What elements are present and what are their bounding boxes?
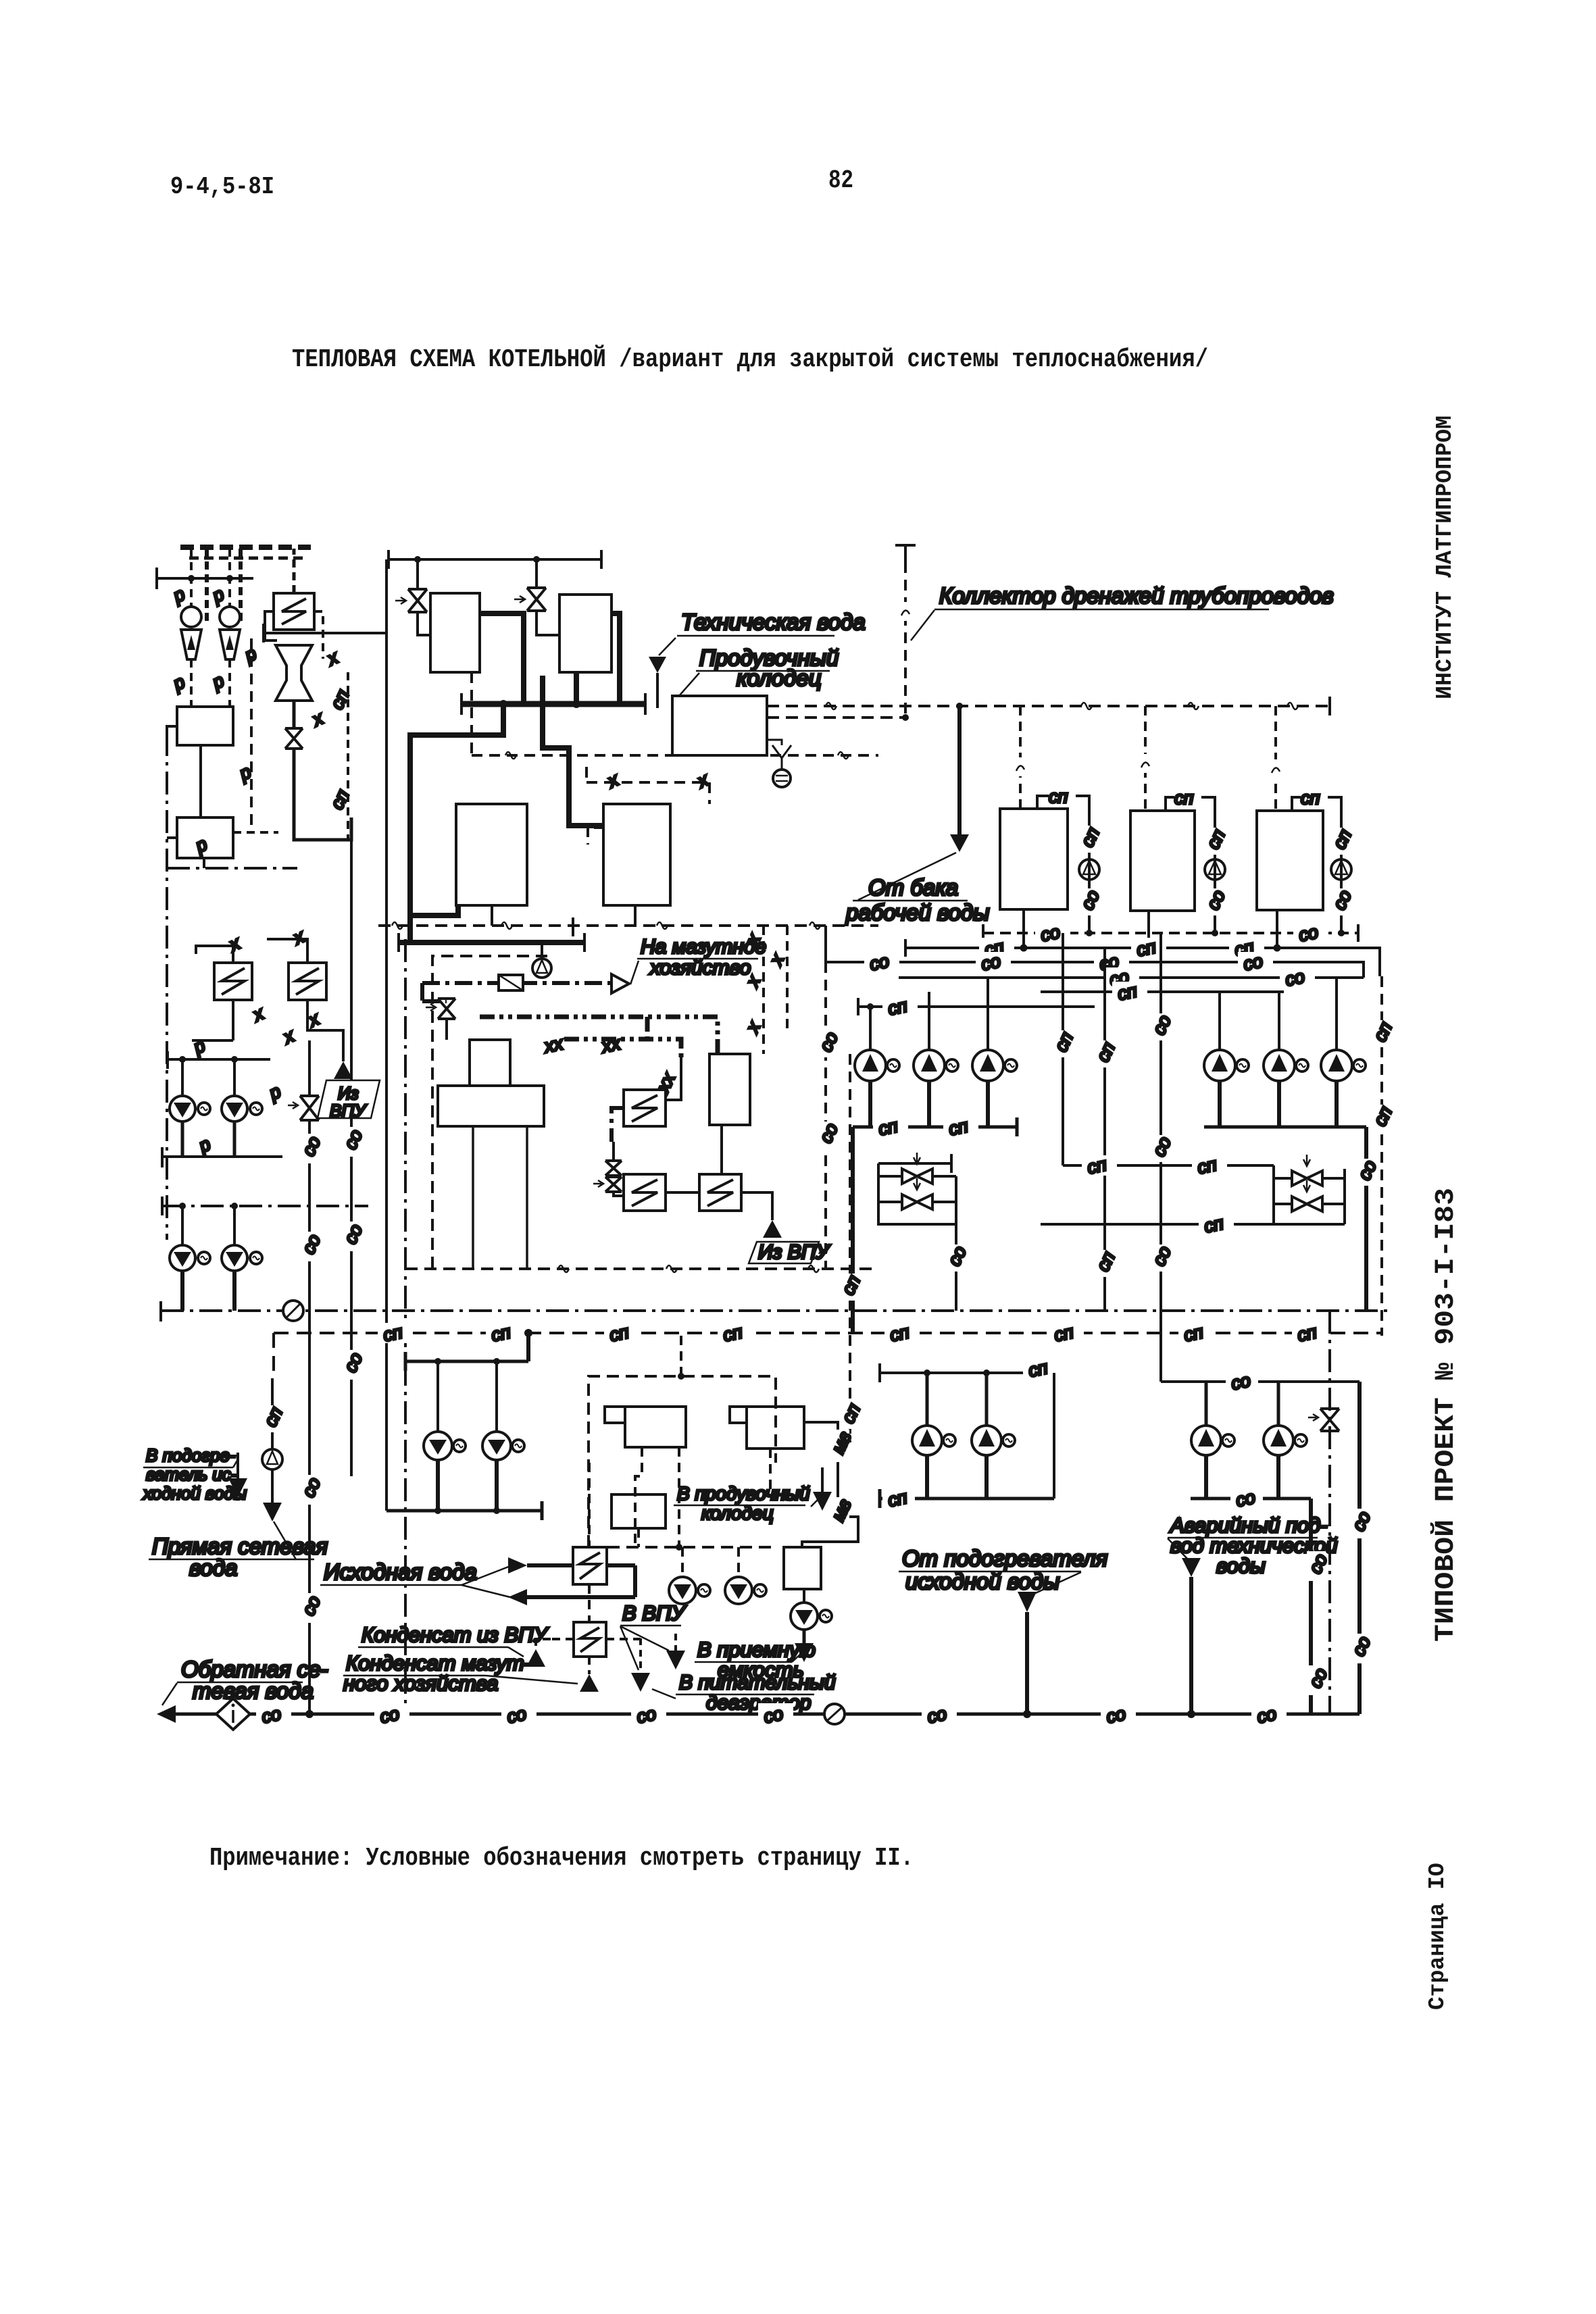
wire: enclosure dashed box bbox=[589, 1376, 776, 1547]
wire: HXL2 bottom elbow bbox=[192, 1039, 233, 1042]
arrow: return network water bbox=[157, 1705, 176, 1723]
wire: dashed riser through HXI x872 bbox=[588, 1463, 591, 1622]
wire: dashed tilde line y1118 bbox=[472, 672, 878, 755]
heat exchanger HXD1 bbox=[624, 1090, 666, 1126]
wire: discharge bus y2218 bbox=[880, 1489, 1054, 1508]
wire: co elbow feed bbox=[1161, 1380, 1311, 1383]
svg-text:хозяйство: хозяйство bbox=[649, 957, 751, 979]
wire: dashed sp riser x1258 bbox=[849, 1054, 851, 1442]
economizer EC2 bbox=[603, 804, 670, 905]
arrow: from heater down bbox=[1018, 1592, 1037, 1612]
wire: HXI2 left elbow bbox=[536, 1639, 574, 1649]
svg-text:От подогревателя: От подогревателя bbox=[902, 1546, 1107, 1571]
wire: top heavy dashed bus bbox=[180, 545, 311, 550]
wire: valve VB2 stem bbox=[535, 559, 538, 588]
wire: bus sp y1468 short bbox=[1041, 990, 1284, 993]
valve VB2 boiler2 feed bbox=[527, 588, 546, 611]
ejector EJ2 bbox=[220, 607, 240, 627]
wire: deaerator legs bbox=[473, 1126, 527, 1269]
deaerator column DC bbox=[470, 1040, 510, 1086]
wire: HXD1 left elbow bbox=[612, 1108, 624, 1142]
wire: vpu riser x458 bbox=[308, 1040, 311, 1714]
svg-text:В ВПУ: В ВПУ bbox=[622, 1601, 687, 1625]
pump RP2 bbox=[482, 1432, 511, 1460]
arrow: raw water in bbox=[508, 1557, 527, 1574]
leader fan bbox=[462, 1566, 510, 1597]
arrow: condensate mazut bbox=[580, 1674, 599, 1692]
wire: drains bus y1045 dashed bbox=[767, 705, 1330, 707]
svg-text:сп: сп bbox=[1049, 786, 1068, 807]
svg-text:Техническая вода: Техническая вода bbox=[681, 609, 866, 634]
break co on riser y1690 bbox=[340, 1126, 366, 1157]
wire: co riser x1718 bbox=[1159, 933, 1162, 1382]
valve BPV1 bbox=[902, 1169, 932, 1184]
wire: sp bus left elbow down bbox=[272, 1333, 275, 1378]
valve BPV2 bbox=[902, 1194, 932, 1209]
pump PL2 bbox=[222, 1096, 247, 1122]
pump PL3 bbox=[170, 1245, 195, 1271]
svg-text:исходной воды: исходной воды bbox=[905, 1569, 1059, 1594]
wire: PB2 bottom to dashdot bbox=[203, 858, 205, 868]
wire: VB2 to boiler2 bbox=[537, 611, 559, 635]
wire: heavy drop to ejector2 bbox=[239, 549, 243, 622]
co labels on bottom bus bbox=[256, 1703, 291, 1727]
arrow: Из ВПУ lower bbox=[763, 1220, 782, 1238]
box PB2 sample cooler bbox=[177, 818, 233, 858]
wire: feedwater line y937 bbox=[264, 624, 386, 643]
leader obratnaya bbox=[162, 1683, 177, 1705]
wire: bypass frame 1 bbox=[878, 1154, 956, 1224]
arrow: в приемную емкость bbox=[795, 1643, 814, 1662]
junction dots bottom bus bbox=[305, 1710, 314, 1718]
wire: EJ1 drop to box PB1 bbox=[190, 659, 193, 707]
wire: HXT top riser bbox=[293, 549, 296, 593]
wire: well right stub to funnel bbox=[767, 740, 782, 745]
svg-text:со: со bbox=[505, 1703, 528, 1727]
wire: FT2 drop bbox=[769, 1449, 772, 1494]
wire: dash-dot bus y1785 bbox=[162, 1205, 368, 1207]
wire: mazut dash-dot line y1455 bbox=[422, 981, 612, 985]
heat exchanger HXD2 bbox=[624, 1174, 666, 1211]
wire: TK3 pump column bbox=[1340, 811, 1343, 933]
wire: co riser x2012 bbox=[1357, 1382, 1362, 1714]
wire: sp drop x403 bbox=[271, 1378, 274, 1449]
wire: sp dashed riser x2045 bbox=[1380, 976, 1383, 1336]
pump MP mazut pump bbox=[541, 942, 543, 959]
wire: feeds to pump row group2 bbox=[1220, 978, 1337, 1050]
wire: feeds to pumps RP bbox=[438, 1361, 497, 1432]
wire: sp riser x1635 bbox=[1103, 948, 1106, 1311]
pump CP2 bbox=[972, 1426, 1001, 1455]
wire: p-header r1 bbox=[168, 1051, 270, 1069]
wire: group2 discharges bbox=[1220, 1081, 1337, 1127]
filter on mazut line bbox=[499, 975, 523, 990]
wire: HXI2 right dashed bbox=[606, 1638, 641, 1640]
wire: dashed sp riser top bbox=[347, 672, 349, 841]
wire: valve stem to HXD2 bbox=[614, 1142, 624, 1196]
svg-text:В подогре-: В подогре- bbox=[146, 1445, 236, 1465]
wire: bus co solid y1424 bbox=[826, 926, 1364, 978]
wire: TK2 bottom drop bbox=[1147, 911, 1150, 948]
svg-text:со: со bbox=[1234, 1487, 1257, 1511]
svg-text:ходной воды: ходной воды bbox=[142, 1483, 247, 1503]
wire: group1 header drop thick bbox=[851, 1127, 855, 1333]
wire: EJ2 drop to box PB1 bbox=[228, 659, 231, 707]
svg-text:со: со bbox=[1039, 922, 1062, 945]
svg-text:Примечание: Условные обозначен: Примечание: Условные обозначения смотрет… bbox=[209, 1844, 914, 1873]
svg-text:со: со bbox=[259, 1703, 282, 1727]
wire: heavy drop to ejector1 bbox=[205, 549, 209, 622]
wire: discharge bus y2236 to riser bbox=[386, 1501, 542, 1520]
svg-text:со: со bbox=[1104, 1703, 1127, 1727]
wire: FT3 drop bbox=[637, 1528, 640, 1547]
wire: x-marked dashed vertical 2 bbox=[786, 926, 789, 1034]
wire: MV line bbox=[802, 1422, 858, 1547]
break co marks on vpu riser bbox=[298, 1133, 324, 1163]
heat exchanger HXI2 bbox=[574, 1622, 606, 1657]
wire: PB1 to PB2 link bbox=[199, 745, 202, 818]
heat exchanger HXL2 bbox=[214, 963, 252, 1000]
ejector EJ1 bbox=[181, 607, 201, 627]
wire: dash-dot border x600 bbox=[404, 939, 407, 1719]
wire: HXL2 bottom drop bbox=[232, 1000, 234, 1040]
wire: boiler2 steam outlet thick bbox=[612, 613, 620, 704]
wire: TK3 top bracket sp bbox=[1292, 797, 1341, 811]
wire: top second dashed bus bbox=[189, 557, 303, 560]
wire: suction header y2032 bbox=[880, 1363, 1017, 1382]
wire: TK1 pump column bbox=[1088, 809, 1091, 933]
wire: boiler1 steam outlet thick bbox=[480, 613, 524, 704]
box FT1 bbox=[625, 1407, 686, 1447]
heat exchanger HXL3 bbox=[289, 963, 326, 1000]
box FT3 bbox=[612, 1494, 666, 1528]
svg-text:ИНСТИТУТ ЛАТГИПРОПРОМ: ИНСТИТУТ ЛАТГИПРОПРОМ bbox=[1432, 416, 1457, 699]
wire: dashed line y1158 with x ticks bbox=[587, 767, 709, 804]
svg-text:вода: вода bbox=[189, 1555, 237, 1580]
wire: dashed bus y1878 bbox=[405, 1267, 878, 1270]
svg-text:От бака: От бака bbox=[868, 875, 958, 900]
wire: bottom co bus y2537 bbox=[176, 1713, 1360, 1716]
wire: dashed feed bus y1370 bbox=[378, 924, 878, 927]
box: blowdown well BW bbox=[672, 696, 767, 755]
pump BP2 bbox=[725, 1577, 752, 1604]
wire: TK2 pump column bbox=[1214, 811, 1216, 933]
wire: working water drop thick bbox=[957, 706, 962, 834]
wire: PL1 discharge bbox=[181, 1122, 184, 1157]
wire: group2 discharge bus y1668 bbox=[1204, 1126, 1366, 1129]
wire: p dashed riser x370 bbox=[250, 638, 253, 828]
wire: PL4 discharge thick bbox=[232, 1271, 236, 1311]
break co on riser y1830 bbox=[340, 1221, 366, 1251]
wire: thick bus y1395 bbox=[399, 940, 584, 945]
wire: HP drop bbox=[271, 1469, 274, 1503]
wire: pumpA feeds bbox=[927, 1373, 987, 1426]
arrow: tech water into well bbox=[649, 657, 666, 673]
wire: RP discharges bbox=[438, 1460, 497, 1511]
svg-text:Прямая сетевая: Прямая сетевая bbox=[152, 1534, 328, 1559]
wire: enclosure feed from sp bus bbox=[680, 1336, 682, 1376]
svg-text:колодец: колодец bbox=[737, 665, 822, 690]
valve VD2 bbox=[605, 1161, 622, 1176]
wire: drop to pump PL2 bbox=[233, 1059, 236, 1096]
instrument: circle-slash on bus bbox=[283, 1301, 303, 1321]
junction dots on p-header bbox=[188, 575, 195, 582]
wire: TK1 bottom drop bbox=[1022, 909, 1025, 948]
valve BPV3 bbox=[1292, 1171, 1322, 1186]
wire: tank bus co dashed y1381 bbox=[983, 932, 1358, 934]
tank TK2 bbox=[1130, 811, 1195, 911]
label МВ lower bbox=[828, 1496, 855, 1530]
svg-text:со: со bbox=[1255, 1703, 1278, 1727]
wire: BP3 discharge arrow bbox=[803, 1630, 806, 1643]
pump TP3 transfer bbox=[1331, 859, 1351, 880]
wire: EC1 bottom drop bbox=[491, 905, 493, 926]
leader + arrow to blowdown well bbox=[811, 1494, 823, 1507]
wire: pumpB discharges bbox=[1206, 1455, 1278, 1499]
label МВ upper bbox=[828, 1428, 855, 1462]
wire: group2 drop x2022 bbox=[1364, 1127, 1368, 1311]
valve VL1 on elevator drop bbox=[285, 728, 303, 749]
pump NP6 bbox=[1321, 1050, 1352, 1081]
svg-text:со: со bbox=[762, 1703, 784, 1727]
wire: steam header thick bbox=[462, 701, 645, 707]
pump TP2 transfer bbox=[1205, 859, 1225, 880]
tank TK3 bbox=[1257, 811, 1323, 910]
wire: PL2 discharge bbox=[233, 1122, 236, 1157]
svg-text:Коллектор дренажей трубопровод: Коллектор дренажей трубопроводов bbox=[939, 583, 1334, 608]
wire: valve VB1 stem bbox=[416, 559, 419, 589]
wire: discharge bus B y2218 bbox=[1191, 1497, 1311, 1501]
wire: left dash-dot border bbox=[166, 733, 168, 1240]
svg-text:воды: воды bbox=[1216, 1554, 1266, 1578]
pump CP3 bbox=[1191, 1426, 1221, 1455]
wire: HXD1 right top elbow bbox=[666, 1054, 681, 1100]
box PB1 sample cooler bbox=[177, 707, 233, 745]
pump NP3 bbox=[972, 1050, 1003, 1081]
deaerator tank DT bbox=[438, 1086, 544, 1126]
wire: bus sp y1490 short bbox=[858, 998, 1095, 1015]
pump PL4 bbox=[222, 1245, 247, 1271]
leader blowdown well bbox=[679, 673, 699, 696]
wire: co riser x1940 bbox=[1309, 1499, 1313, 1714]
valve VB1 boiler1 feed bbox=[408, 589, 427, 612]
wire: pumpA discharges bbox=[927, 1455, 987, 1499]
break tilde on collector stem bbox=[899, 602, 912, 621]
wire: PL3 discharge thick bbox=[180, 1271, 184, 1311]
svg-text:Конденсат из ВПУ: Конденсат из ВПУ bbox=[361, 1623, 549, 1646]
pump NP4 bbox=[1204, 1050, 1235, 1081]
tall box TB right of deaerator bbox=[709, 1054, 750, 1125]
wire: elevator drop lower thick bbox=[294, 749, 351, 840]
wire: deaerator dashed enclosure bbox=[432, 956, 547, 1269]
wire: co top link x1940-x2012 bbox=[1311, 1380, 1360, 1383]
svg-text:Страница IO: Страница IO bbox=[1425, 1863, 1450, 2010]
wire: p-footer r1 bbox=[162, 1147, 282, 1167]
wire: heater riser to bottom bus bbox=[1025, 1612, 1029, 1714]
svg-text:со: со bbox=[1241, 951, 1264, 974]
wire: dashed co riser x1225 bbox=[824, 962, 827, 1269]
wire: HXL2 top bracket bbox=[196, 946, 233, 963]
arrow: raw water out bbox=[508, 1589, 527, 1605]
svg-text:82: 82 bbox=[828, 166, 853, 195]
wire: drop to tank TK1 bbox=[1019, 706, 1022, 809]
svg-text:ватель ис-: ватель ис- bbox=[146, 1464, 237, 1484]
svg-text:Исходная вода: Исходная вода bbox=[324, 1559, 477, 1584]
pump HP heater circulation bbox=[262, 1449, 282, 1469]
pump TP1 transfer bbox=[1079, 859, 1099, 880]
boiler B1 bbox=[430, 593, 480, 672]
svg-text:ТИПОВОЙ ПРОЕКТ № 903-I-I83: ТИПОВОЙ ПРОЕКТ № 903-I-I83 bbox=[1430, 1188, 1462, 1642]
wire: well second dashed y1062 bbox=[767, 716, 905, 719]
flow meter diamond bbox=[216, 1699, 250, 1730]
arrow: to mazut facility bbox=[612, 974, 629, 993]
wire: drop to tank TK3 bbox=[1274, 706, 1277, 811]
wire: long left riser x572 bbox=[385, 559, 388, 1511]
heat exchanger HXT top-left bbox=[274, 593, 314, 630]
heat exchanger HXD3 bbox=[699, 1174, 741, 1211]
wire: sp dashed bus y1973 bbox=[274, 1332, 1382, 1334]
svg-text:ного хозяйства: ного хозяйства bbox=[343, 1671, 498, 1695]
wire: mazut elbow left bbox=[422, 983, 447, 1001]
break tildes on y1370 bbox=[392, 922, 403, 929]
wire: sp feed y1725 bbox=[1063, 1165, 1274, 1224]
tank TK1 bbox=[1000, 809, 1068, 909]
wire: group1 discharges bbox=[870, 1081, 988, 1127]
wire: x-marked dashed vertical 1 bbox=[762, 926, 765, 1054]
wire: economizer1 thick feed bbox=[413, 905, 458, 915]
arrow: Из ВПУ upper triangle bbox=[334, 1061, 353, 1079]
wire: suction dashed bus y2290 bbox=[589, 1546, 776, 1549]
svg-text:со: со bbox=[634, 1703, 657, 1727]
wire: FT4 drop to pump BP3 bbox=[803, 1589, 805, 1603]
pump BP1 bbox=[669, 1577, 696, 1604]
svg-text:ТЕПЛОВАЯ СХЕМА КОТЕЛЬНОЙ /вари: ТЕПЛОВАЯ СХЕМА КОТЕЛЬНОЙ /вариант для за… bbox=[292, 344, 1208, 374]
wire: boiler2 bottom drop thick bbox=[574, 672, 579, 704]
wire: main dash-dot bus y1940 bbox=[161, 1309, 1392, 1312]
valve VD3 bbox=[605, 1177, 622, 1192]
leaders from В ВПУ bbox=[620, 1626, 669, 1670]
wire: feeds to pump row group1 bbox=[870, 978, 988, 1050]
wire: collector T-top bbox=[895, 545, 916, 562]
wire: EC2 top stub bbox=[588, 828, 603, 845]
arrow: to blowdown well bbox=[813, 1492, 832, 1511]
funnel drain of well bbox=[772, 745, 791, 770]
svg-text:со: со bbox=[1297, 922, 1320, 945]
svg-text:со: со bbox=[1229, 1370, 1252, 1394]
arrow: to raw water heater bbox=[228, 1478, 247, 1497]
wire: suction header y2015 bbox=[405, 1352, 528, 1371]
wire: PB2 stub left bbox=[167, 836, 177, 839]
leader mazut bbox=[630, 961, 639, 984]
svg-text:со: со bbox=[378, 1703, 401, 1727]
wire: TK2 top bracket sp bbox=[1166, 797, 1215, 811]
wire: co riser x520 long bbox=[350, 840, 353, 1476]
svg-text:колодец: колодец bbox=[701, 1503, 774, 1524]
svg-text:со: со bbox=[925, 1703, 948, 1727]
wire: bypass frame 2 bbox=[1041, 1165, 1345, 1224]
wire: thick dashdotdot y1505 bbox=[480, 1017, 647, 1040]
leader avariyny bbox=[1168, 1538, 1189, 1561]
wire: emergency riser bbox=[1189, 1577, 1193, 1714]
pump NP1 bbox=[855, 1050, 886, 1081]
wire: drop from sp bus x782 bbox=[526, 1333, 530, 1361]
wire: TK3 bottom drop bbox=[1276, 910, 1278, 948]
leader collector bbox=[911, 610, 934, 640]
wire: sp riser x1573 bbox=[1062, 933, 1064, 1165]
break co on riser y2020 bbox=[340, 1349, 366, 1380]
wire: drop to tank TK2 bbox=[1144, 706, 1147, 811]
pump CP1 bbox=[912, 1426, 942, 1455]
wire: elevator drop bbox=[293, 701, 296, 728]
svg-text:В продувочный: В продувочный bbox=[677, 1483, 810, 1504]
pump RP1 bbox=[424, 1432, 452, 1460]
economizer EC1 bbox=[456, 804, 527, 905]
svg-text:сп: сп bbox=[1301, 788, 1320, 808]
wire: pumpB feeds bbox=[1206, 1382, 1278, 1426]
wire: sp link right bbox=[1017, 1372, 1054, 1374]
pump NP5 bbox=[1264, 1050, 1295, 1081]
wire: dash-dot segment under PB2 bbox=[167, 867, 297, 870]
wire: bypass1 to co drop bbox=[955, 1224, 957, 1311]
wire: HXD2-HXD3 link bbox=[666, 1191, 699, 1194]
valve BPV4 bbox=[1292, 1197, 1322, 1211]
wire: HXT right drop bbox=[314, 611, 323, 659]
wire: FT1 drops bbox=[635, 1447, 679, 1547]
pump BP3 bbox=[791, 1603, 818, 1630]
svg-text:ВПУ: ВПУ bbox=[330, 1101, 367, 1121]
svg-text:рабочей воды: рабочей воды bbox=[845, 900, 989, 925]
arrow: condensate from VPU bbox=[526, 1649, 545, 1667]
wire: riser x1560 bbox=[1053, 1373, 1055, 1499]
svg-text:сп: сп bbox=[1174, 788, 1194, 808]
wire: HXT left elbow to elevator bbox=[265, 611, 277, 640]
label Из ВПУ lower bbox=[749, 1242, 819, 1263]
svg-text:9-4,5-8I: 9-4,5-8I bbox=[170, 173, 274, 201]
wire: steam takeoff thick C-loop bbox=[410, 704, 503, 941]
heat exchanger HXI1 bbox=[573, 1547, 607, 1584]
svg-text:тевая вода: тевая вода bbox=[193, 1678, 314, 1703]
pump PL1 bbox=[170, 1096, 195, 1122]
valve VD1 deaerator feed bbox=[438, 999, 455, 1019]
leader ot podogrevatelya bbox=[1032, 1572, 1081, 1594]
wire: TB bottom drop bbox=[720, 1125, 723, 1174]
wire: VD1 down to deaerator bbox=[445, 1019, 448, 1040]
node: left T of main dash-dot bus bbox=[159, 1301, 162, 1322]
node: top-left T terminal bbox=[157, 568, 253, 589]
boiler B2 bbox=[559, 595, 612, 672]
svg-text:В питательный: В питательный bbox=[679, 1671, 836, 1694]
wire: bus sp solid y1403 bbox=[905, 939, 1380, 976]
wire: drop to pump PL3 bbox=[181, 1206, 184, 1245]
valve VVPU on riser bbox=[300, 1096, 319, 1120]
wire: HXL3 top bracket bbox=[267, 939, 307, 963]
wire: HXL3 bottom drop bbox=[307, 1000, 343, 1061]
arrow: emergency water down bbox=[1182, 1558, 1201, 1577]
wire: PB1 left drop to dashdot bbox=[167, 726, 177, 733]
arrow: direct network water bbox=[263, 1503, 282, 1521]
wire: pump feeds bbox=[682, 1547, 739, 1577]
wire: dash-dot riser x1968 bbox=[1328, 1311, 1331, 1714]
wire: TB top thick feed bbox=[647, 1017, 718, 1054]
wire: bus co y1447 bbox=[899, 976, 1364, 979]
label Из ВПУ upper flag bbox=[318, 1080, 380, 1118]
box FT4 bbox=[784, 1547, 821, 1589]
leader tech water bbox=[659, 638, 676, 655]
wire: group1 discharge bus sp y1668 bbox=[853, 1117, 1017, 1136]
arrow: в ВПУ left bbox=[631, 1673, 650, 1692]
wire: drop to pump PL1 bbox=[181, 1059, 184, 1096]
wire: EC2 bottom drop bbox=[634, 905, 637, 926]
